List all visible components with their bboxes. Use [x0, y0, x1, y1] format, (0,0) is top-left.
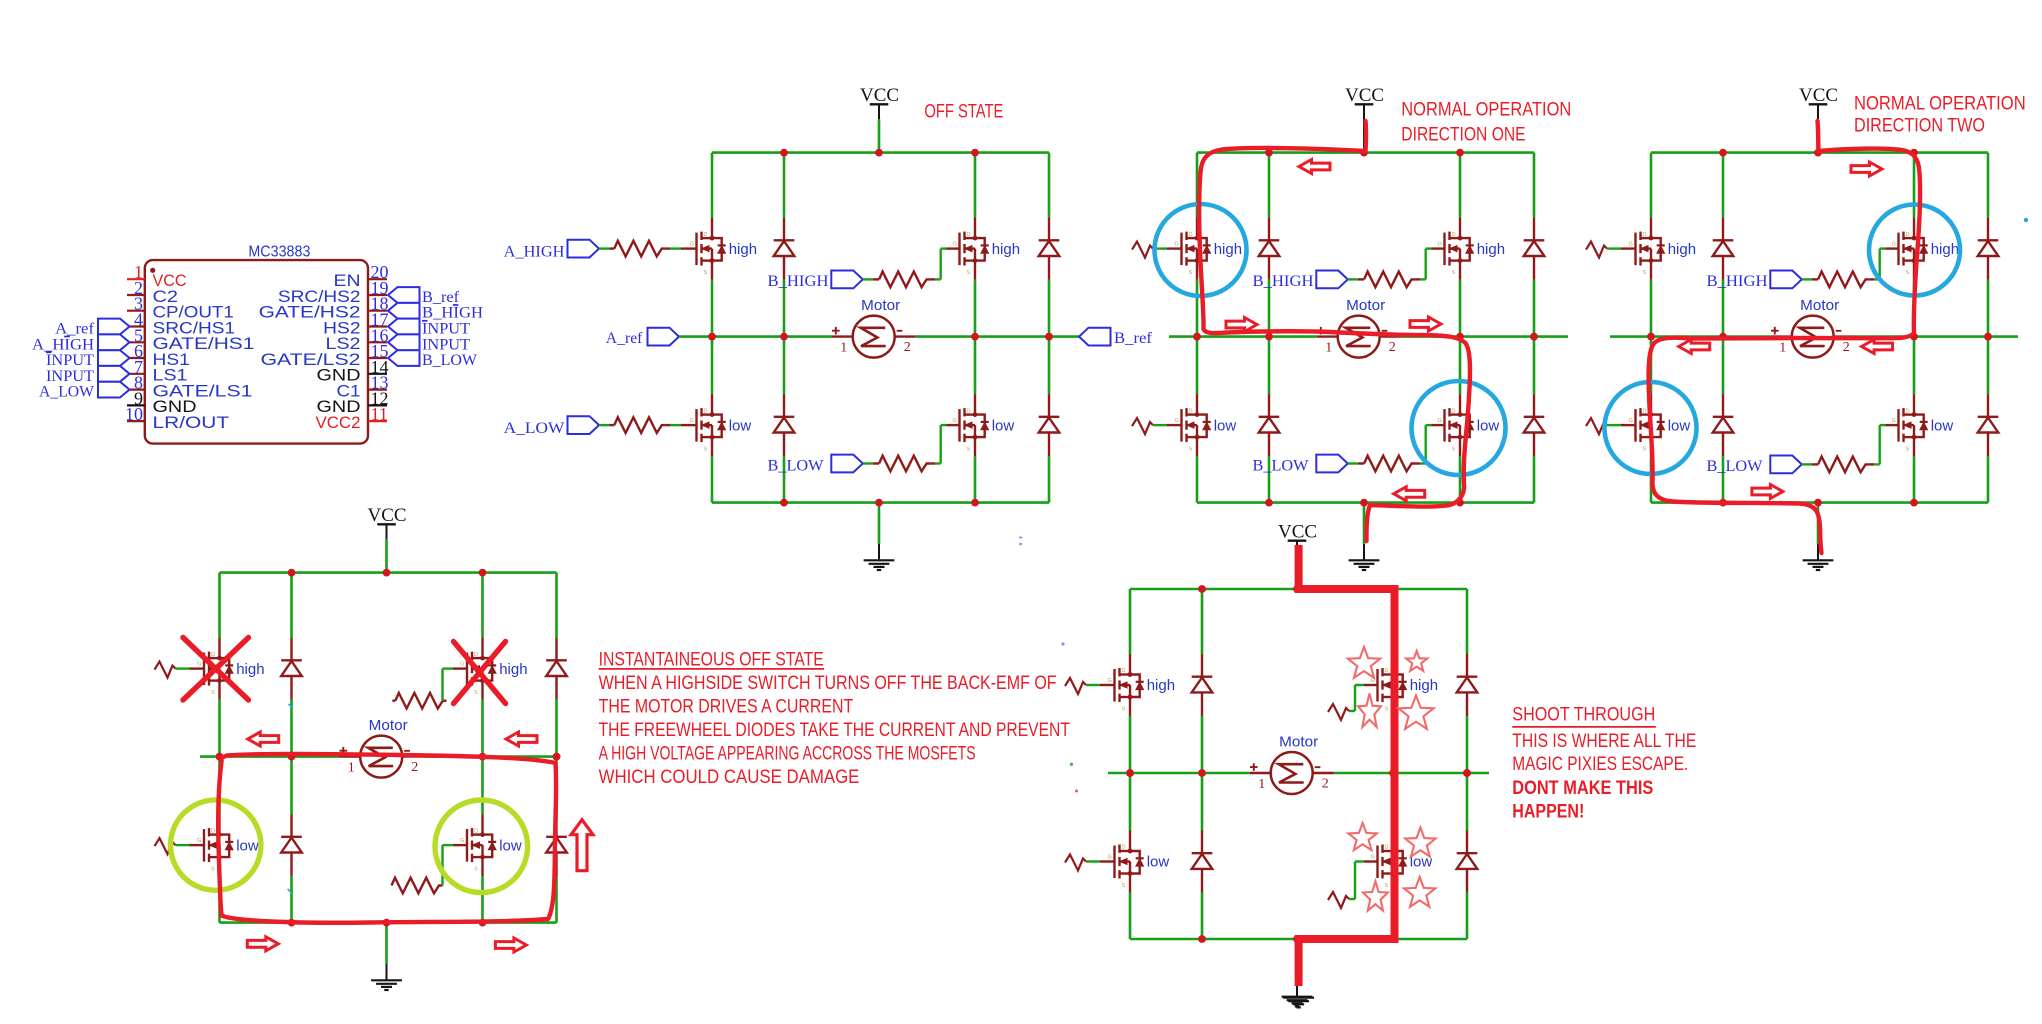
svg-text:S: S [967, 270, 971, 276]
svg-text:S: S [704, 270, 708, 276]
svg-text:S: S [1385, 707, 1389, 713]
svg-text:2: 2 [1322, 777, 1329, 792]
svg-text:THIS IS WHERE ALL THE: THIS IS WHERE ALL THE [1512, 731, 1696, 752]
svg-text:G: G [953, 242, 957, 248]
svg-text:B_HIGH: B_HIGH [1707, 273, 1768, 290]
svg-text:Motor: Motor [1279, 735, 1318, 751]
svg-text:S: S [1643, 270, 1647, 276]
svg-text:G: G [690, 418, 694, 424]
svg-text:high: high [992, 241, 1020, 258]
svg-text:G: G [1629, 418, 1633, 424]
svg-text:2: 2 [411, 760, 418, 775]
svg-text:NORMAL OPERATION: NORMAL OPERATION [1854, 94, 2026, 115]
svg-text:Motor: Motor [861, 298, 900, 314]
svg-text:S: S [1452, 270, 1456, 276]
svg-text:B_LOW: B_LOW [768, 457, 825, 474]
svg-text:MAGIC PIXIES ESCAPE.: MAGIC PIXIES ESCAPE. [1512, 754, 1688, 775]
svg-text:S: S [1643, 447, 1647, 453]
svg-text:low: low [499, 837, 522, 854]
svg-text:A_LOW: A_LOW [504, 420, 566, 437]
svg-text:MC33883: MC33883 [248, 244, 310, 261]
svg-text:1: 1 [348, 761, 355, 776]
svg-text:WHICH COULD CAUSE DAMAGE: WHICH COULD CAUSE DAMAGE [599, 767, 860, 788]
svg-text:G: G [1629, 242, 1633, 248]
svg-text:VCC: VCC [368, 505, 407, 526]
svg-text:D: D [967, 408, 971, 414]
svg-text:A_HIGH: A_HIGH [504, 244, 565, 261]
svg-text:VCC: VCC [1278, 522, 1317, 543]
svg-text:B_ref: B_ref [1114, 330, 1153, 347]
svg-text:DIRECTION ONE: DIRECTION ONE [1401, 124, 1525, 145]
svg-text:D: D [1122, 845, 1126, 851]
svg-text:G: G [197, 838, 201, 844]
svg-text:G: G [1108, 678, 1112, 684]
svg-text:low: low [1931, 417, 1954, 434]
svg-text:G: G [1438, 242, 1442, 248]
svg-text:high: high [499, 661, 527, 678]
svg-text:S: S [967, 447, 971, 453]
svg-text:S: S [1189, 447, 1193, 453]
svg-text:S: S [1122, 883, 1126, 889]
svg-text:D: D [474, 828, 478, 834]
svg-text:D: D [1189, 408, 1193, 414]
svg-text:S: S [211, 867, 215, 873]
svg-text:high: high [1668, 241, 1696, 258]
svg-text:A_ref: A_ref [55, 321, 95, 338]
svg-text:D: D [1906, 408, 1910, 414]
svg-text:DONT MAKE THIS: DONT MAKE THIS [1512, 778, 1653, 799]
svg-text:INPUT: INPUT [422, 321, 470, 338]
svg-text:11: 11 [371, 404, 388, 424]
svg-text:S: S [474, 690, 478, 696]
svg-text:VCC: VCC [1345, 85, 1384, 106]
svg-text:INSTANTAINEOUS OFF STATE: INSTANTAINEOUS OFF STATE [599, 650, 824, 671]
svg-text:G: G [690, 242, 694, 248]
svg-text:D: D [211, 652, 215, 658]
svg-text:1: 1 [1258, 777, 1265, 792]
svg-text:Motor: Motor [1346, 298, 1385, 314]
svg-text:D: D [1643, 408, 1647, 414]
svg-text:VCC: VCC [1799, 85, 1838, 106]
svg-text:G: G [1108, 855, 1112, 861]
svg-text:NORMAL OPERATION: NORMAL OPERATION [1401, 99, 1571, 120]
svg-text:G: G [1892, 418, 1896, 424]
svg-text:G: G [460, 662, 464, 668]
svg-text:low: low [1214, 417, 1237, 434]
svg-text:high: high [1410, 677, 1438, 694]
svg-text:SHOOT THROUGH: SHOOT THROUGH [1512, 705, 1655, 726]
svg-text:B_ref: B_ref [422, 289, 460, 306]
svg-text:high: high [1147, 677, 1175, 694]
svg-text:high: high [236, 661, 264, 678]
svg-text:low: low [992, 417, 1015, 434]
svg-text:low: low [1477, 417, 1500, 434]
svg-text:B_HIGH: B_HIGH [422, 305, 483, 322]
svg-text:G: G [953, 418, 957, 424]
svg-text:S: S [1189, 270, 1193, 276]
svg-text:low: low [729, 417, 752, 434]
svg-text:D: D [1906, 232, 1910, 238]
svg-text:S: S [704, 447, 708, 453]
svg-text:D: D [1452, 232, 1456, 238]
svg-text:D: D [1122, 668, 1126, 674]
svg-text:D: D [1189, 232, 1193, 238]
svg-text:A_HIGH: A_HIGH [32, 336, 94, 353]
svg-text:1: 1 [1779, 341, 1786, 356]
svg-text:B_LOW: B_LOW [1253, 457, 1310, 474]
svg-text:S: S [1122, 707, 1126, 713]
svg-text:A_LOW: A_LOW [39, 384, 95, 401]
svg-text:1: 1 [840, 341, 847, 356]
svg-text:OFF STATE: OFF STATE [924, 102, 1003, 123]
svg-text:D: D [1643, 232, 1647, 238]
svg-text:G: G [1892, 242, 1896, 248]
svg-text:INPUT: INPUT [46, 352, 94, 369]
svg-text:D: D [474, 652, 478, 658]
svg-text:low: low [236, 837, 259, 854]
svg-text:2: 2 [1843, 340, 1850, 355]
svg-text:B_HIGH: B_HIGH [768, 273, 829, 290]
svg-text:G: G [1175, 242, 1179, 248]
svg-text:THE FREEWHEEL DIODES TAKE THE: THE FREEWHEEL DIODES TAKE THE CURRENT AN… [599, 720, 1071, 741]
svg-text:VCC2: VCC2 [316, 413, 361, 432]
svg-text:THE MOTOR DRIVES A CURRENT: THE MOTOR DRIVES A CURRENT [599, 697, 854, 718]
svg-text:S: S [211, 690, 215, 696]
svg-text:D: D [211, 828, 215, 834]
svg-text:DIRECTION TWO: DIRECTION TWO [1854, 116, 1985, 137]
svg-text:1: 1 [1325, 341, 1332, 356]
svg-text:A_ref: A_ref [606, 330, 643, 347]
svg-text:low: low [1668, 417, 1691, 434]
svg-text:2: 2 [904, 340, 911, 355]
svg-text:G: G [197, 662, 201, 668]
svg-text:D: D [704, 232, 708, 238]
svg-text:B_LOW: B_LOW [422, 352, 478, 369]
svg-text:high: high [729, 241, 757, 258]
svg-text:high: high [1477, 241, 1505, 258]
svg-text:G: G [1438, 418, 1442, 424]
svg-text:INPUT: INPUT [46, 368, 94, 385]
svg-text:D: D [704, 408, 708, 414]
svg-text:D: D [967, 232, 971, 238]
svg-text:INPUT: INPUT [422, 336, 470, 353]
svg-text:D: D [1385, 845, 1389, 851]
svg-text:A HIGH VOLTAGE APPEARING ACCRO: A HIGH VOLTAGE APPEARING ACCROSS THE MOS… [599, 744, 976, 765]
svg-text:10: 10 [125, 404, 143, 424]
svg-text:S: S [1452, 447, 1456, 453]
svg-text:high: high [1931, 241, 1959, 258]
svg-text:B_LOW: B_LOW [1707, 458, 1764, 475]
svg-text:Motor: Motor [1800, 298, 1839, 314]
svg-text:low: low [1147, 854, 1170, 871]
svg-text:D: D [1452, 408, 1456, 414]
svg-text:VCC: VCC [860, 85, 899, 106]
svg-text:HAPPEN!: HAPPEN! [1512, 802, 1584, 823]
svg-text:G: G [1371, 855, 1375, 861]
svg-text:S: S [1906, 270, 1910, 276]
svg-text:B_HIGH: B_HIGH [1253, 273, 1314, 290]
svg-text:high: high [1214, 241, 1242, 258]
svg-text:S: S [1385, 883, 1389, 889]
svg-text:S: S [474, 867, 478, 873]
svg-text:D: D [1385, 668, 1389, 674]
svg-text:G: G [1175, 418, 1179, 424]
svg-text:G: G [460, 838, 464, 844]
svg-text:LR/OUT: LR/OUT [153, 413, 230, 432]
svg-text:S: S [1906, 447, 1910, 453]
svg-text:WHEN A HIGHSIDE SWITCH TURNS O: WHEN A HIGHSIDE SWITCH TURNS OFF THE BAC… [599, 673, 1057, 694]
svg-text:Motor: Motor [369, 718, 408, 734]
svg-text:2: 2 [1389, 340, 1396, 355]
